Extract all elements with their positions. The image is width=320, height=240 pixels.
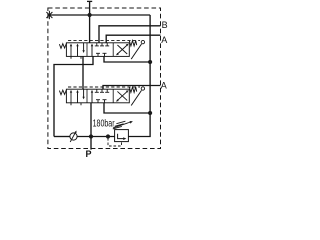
svg-text:P: P <box>86 149 92 159</box>
svg-text:180bar: 180bar <box>93 118 115 129</box>
valve U2 (bottom directional valve) <box>59 87 144 106</box>
throttle valve circle <box>70 133 77 140</box>
relief valve adjustment arrow <box>113 122 131 128</box>
svg-text:A: A <box>161 80 167 90</box>
relief valve V1 body <box>115 130 129 142</box>
T manifold wire <box>49 14 150 16</box>
wire valve1 P feed branch <box>54 56 93 136</box>
enclosure dashed border <box>48 8 161 149</box>
wire valve1 B port to right <box>99 26 161 43</box>
wire valve2 A port to right <box>103 86 161 90</box>
relief valve spring <box>113 126 122 128</box>
wire valve1 T return <box>104 56 150 62</box>
T port riser wire <box>89 1 91 42</box>
junction dot pilot tap <box>106 134 110 138</box>
valve U1 (top directional valve) <box>59 40 144 59</box>
P wire to relief valve <box>77 136 115 138</box>
wire valve2 T return <box>104 103 150 113</box>
port marker star X on left border <box>46 11 52 19</box>
junction dot T <box>88 13 92 17</box>
svg-text:B: B <box>162 20 168 30</box>
svg-text:A: A <box>161 35 167 45</box>
wire valve1 to valve2 series <box>82 56 84 89</box>
wire P riser valve2 <box>90 103 92 150</box>
P supply wire bottom <box>54 136 70 138</box>
wire valve1 A port to right <box>106 35 160 43</box>
T label <box>87 0 92 2</box>
junction dot valve2 T <box>148 111 152 115</box>
T down wire right side <box>128 15 150 137</box>
junction dot P riser <box>89 134 93 138</box>
relief valve pilot dashed line <box>108 138 122 146</box>
junction dot valve1 T <box>148 60 152 64</box>
throttle adjust arrow <box>70 132 76 142</box>
relief valve flow path arrow <box>118 134 125 139</box>
